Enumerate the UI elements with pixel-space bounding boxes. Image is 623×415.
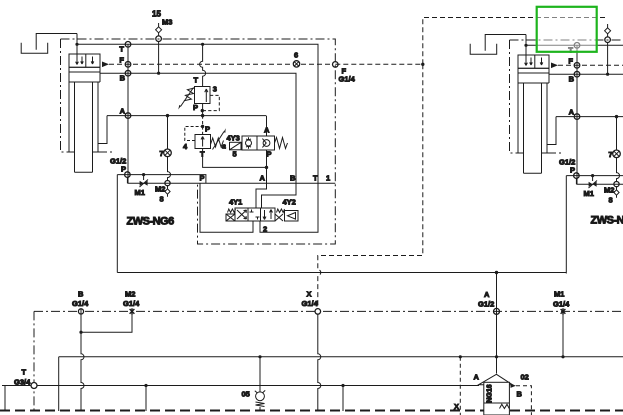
- svg-text:G1/2: G1/2: [478, 300, 494, 309]
- svg-text:ZWS-NG6: ZWS-NG6: [127, 216, 175, 228]
- wire x343 drop: [342, 386, 344, 412]
- wire A column: [496, 273, 498, 374]
- svg-text:02: 02: [521, 373, 529, 382]
- pump unit NG6: [479, 374, 513, 415]
- green annotation overlay fade: [536, 6, 598, 53]
- node line2 dot2: [341, 384, 344, 387]
- wire x146 drop: [145, 386, 147, 412]
- svg-text:NG16: NG16: [487, 384, 494, 402]
- node F connector dot: [421, 63, 424, 66]
- wire left stub: [4, 386, 6, 411]
- port M1 G1/4: [561, 308, 566, 314]
- port T G3/4: [31, 383, 37, 389]
- svg-text:G1/4: G1/4: [553, 300, 570, 309]
- svg-text:M1: M1: [554, 290, 564, 299]
- wire supply line 1 left drop: [58, 357, 60, 411]
- port X G1/4: [315, 309, 321, 315]
- svg-text:X: X: [307, 290, 312, 299]
- circuit assembly left: [21, 23, 355, 273]
- node line2 dot: [144, 384, 147, 387]
- check valve 05: [255, 355, 265, 411]
- wire B-M2 loop: [81, 314, 132, 332]
- svg-text:G1/4: G1/4: [72, 299, 89, 308]
- node M1 dot: [561, 355, 564, 358]
- svg-text:A: A: [474, 373, 480, 382]
- svg-text:G3/4: G3/4: [14, 378, 31, 387]
- dashed X pilot: [459, 357, 461, 415]
- wire common P line: [117, 272, 566, 274]
- label T G3/4: [14, 368, 31, 387]
- label M1 G1/4: [553, 290, 570, 309]
- label B G1/4: [72, 290, 89, 309]
- port A G1/2: [494, 308, 500, 314]
- green annotation box: [537, 7, 597, 52]
- svg-text:15: 15: [152, 10, 161, 19]
- node B loop dot: [79, 331, 82, 334]
- manifold dash-dot port line: [34, 310, 623, 312]
- port M2 G1/4: [130, 308, 135, 314]
- node A tap dot: [495, 271, 498, 274]
- wire supply line 1: [59, 356, 623, 358]
- wire X port drop: [318, 314, 321, 411]
- svg-text:G1/4: G1/4: [123, 299, 140, 308]
- manifold left dash-dot drop: [33, 311, 35, 411]
- svg-text:G1/4: G1/4: [302, 299, 319, 308]
- dashed inter-circuit F connector: [318, 18, 608, 312]
- svg-text:ZWS-NG6: ZWS-NG6: [591, 215, 623, 227]
- node X pilot dot: [459, 355, 462, 358]
- svg-text:B: B: [517, 390, 523, 399]
- svg-text:A: A: [484, 290, 490, 299]
- label X G1/4: [302, 290, 319, 309]
- port A cross: [494, 308, 500, 314]
- dashed B pump line: [516, 386, 531, 415]
- label A G1/2: [478, 290, 494, 309]
- svg-text:M2: M2: [125, 290, 135, 299]
- node A-line1 dot: [495, 355, 498, 358]
- heavy dashed boundary bottom: [0, 410, 623, 412]
- label M2 G1/4: [123, 290, 140, 309]
- port B G1/4: [78, 309, 83, 314]
- circuit assembly right (partial): [470, 24, 623, 274]
- svg-text:T: T: [22, 368, 27, 377]
- svg-text:05: 05: [242, 390, 250, 399]
- wire tank line T: [2, 385, 479, 387]
- wire B drop: [81, 332, 84, 411]
- pump B arrow: [511, 384, 517, 388]
- wire M1 column: [562, 314, 564, 356]
- svg-text:B: B: [78, 290, 84, 299]
- svg-text:M3: M3: [162, 18, 172, 27]
